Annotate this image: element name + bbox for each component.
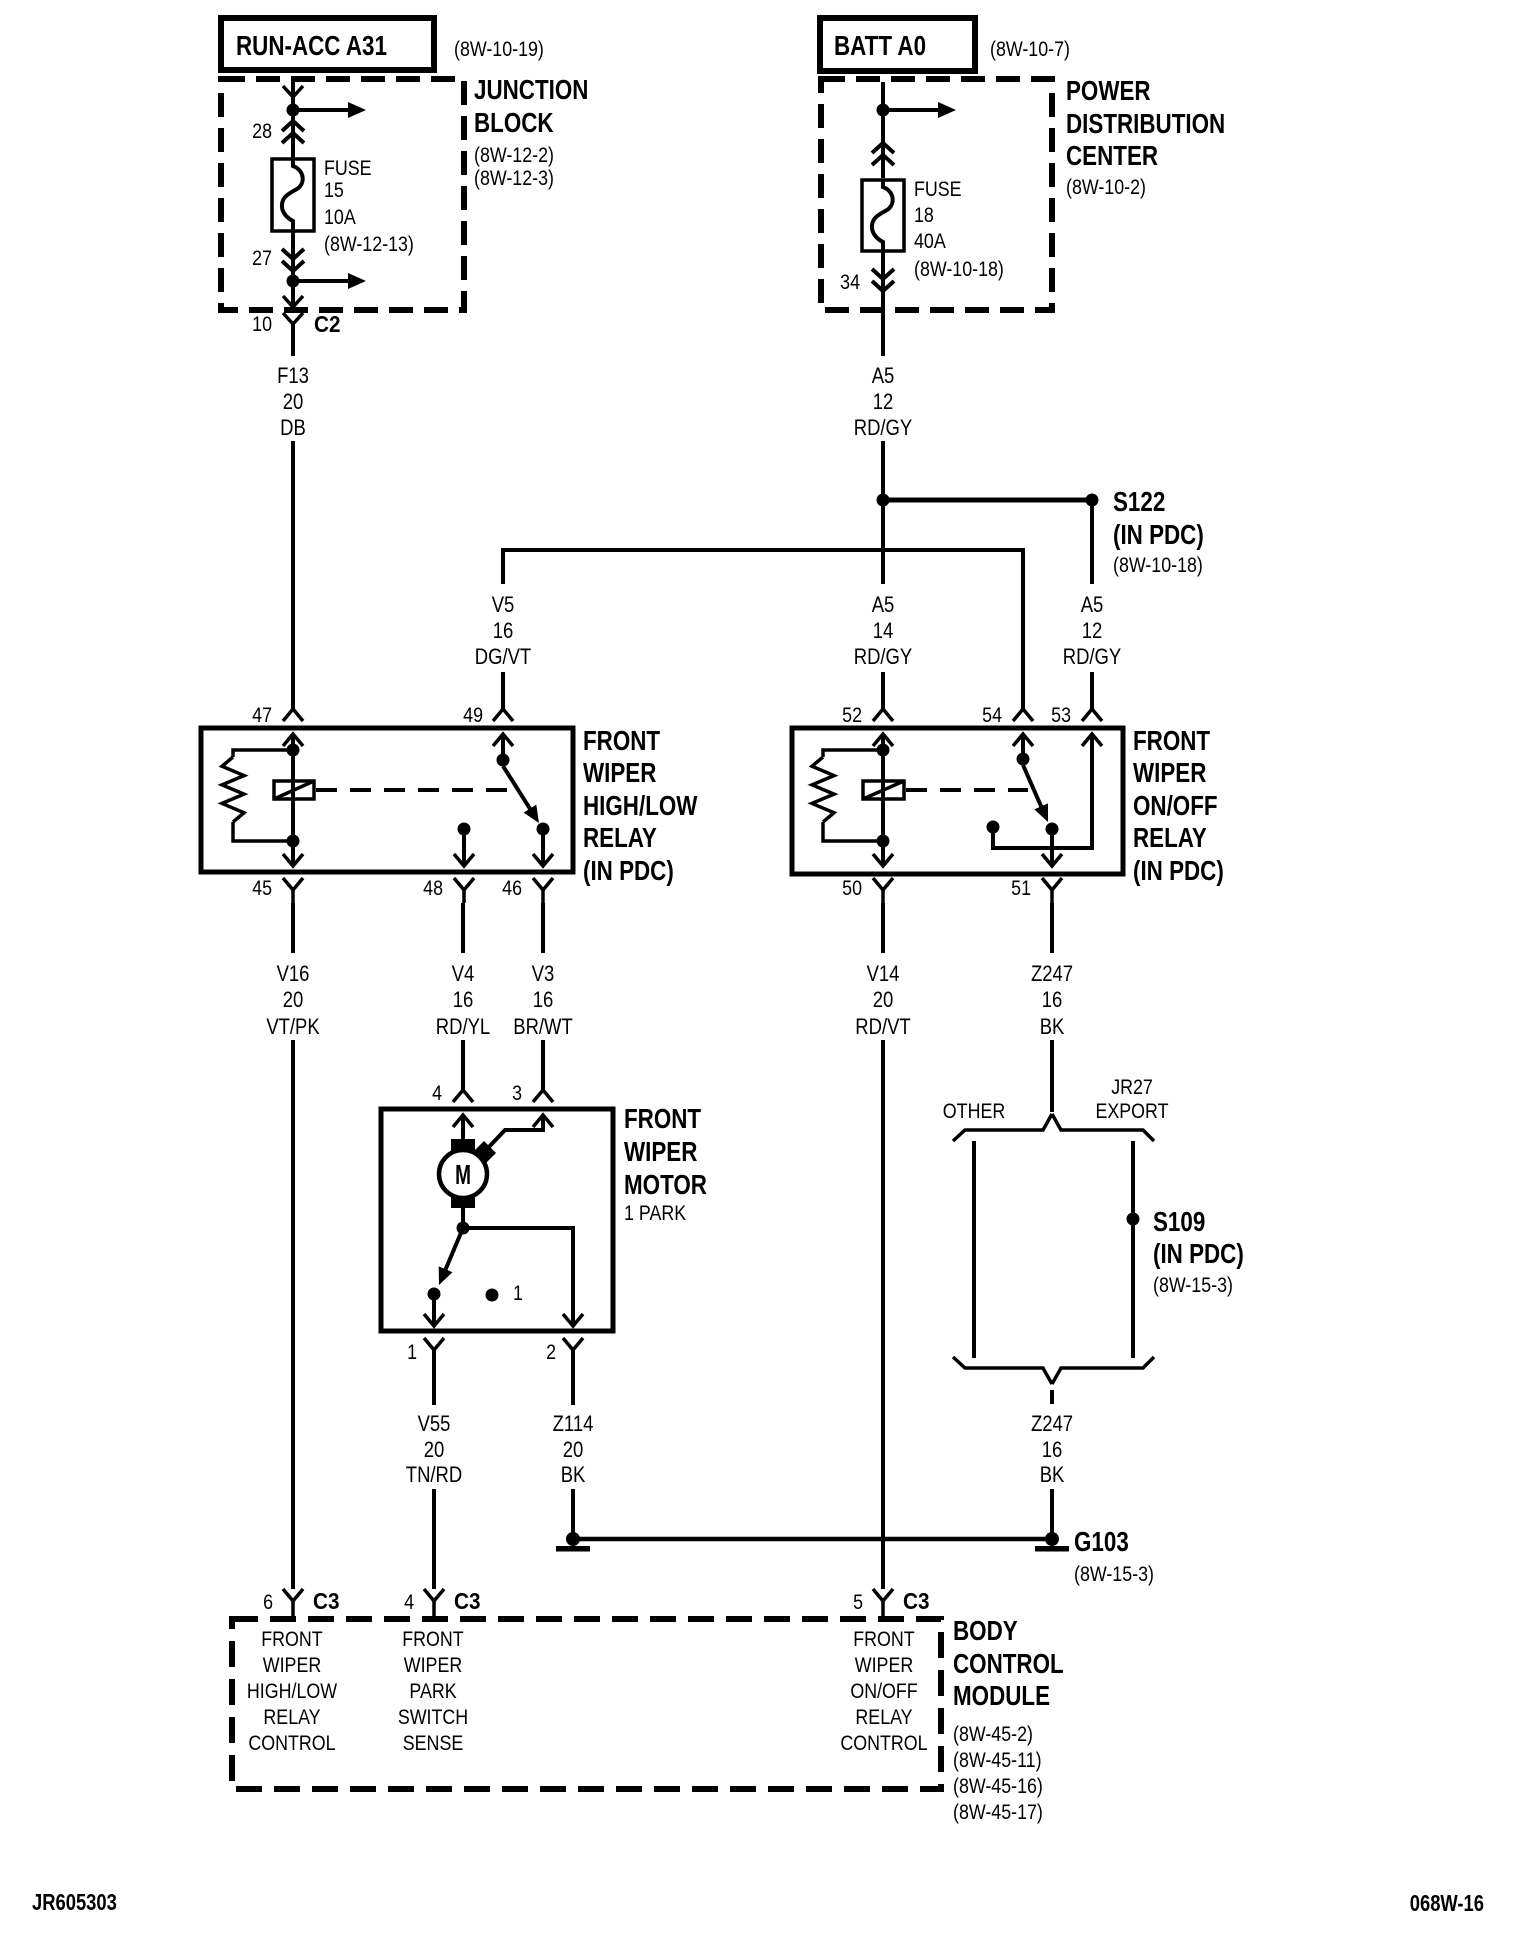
relay coil K1 <box>274 752 314 841</box>
wire V14 upper segment <box>881 903 885 953</box>
wire pin54 to switch pivot <box>1021 734 1025 759</box>
resistor (relay suppression) left <box>222 750 293 841</box>
svg-text:20: 20 <box>563 1439 584 1463</box>
svg-text:BR/WT: BR/WT <box>513 1016 572 1040</box>
sheet code 068W-16 <box>1410 1891 1484 1916</box>
power distribution center name text <box>1066 76 1225 200</box>
svg-text:DB: DB <box>280 417 306 441</box>
svg-text:49: 49 <box>463 704 483 728</box>
wire label V14 20 RD/VT <box>855 963 910 1040</box>
wire V16 upper segment <box>291 903 295 953</box>
BCM pin 6 label <box>263 1591 273 1615</box>
wire park node to pin 2 <box>463 1228 573 1326</box>
pin 47 connector fork <box>283 709 303 721</box>
motor pin 4 arrow inside <box>453 1115 473 1127</box>
svg-text:27: 27 <box>252 247 272 271</box>
pin 45 connector fork <box>283 878 303 903</box>
svg-text:G103: G103 <box>1074 1527 1129 1558</box>
pin 48 arrow inside <box>454 854 474 866</box>
svg-text:4: 4 <box>432 1082 442 1106</box>
pin 47 arrow inside <box>283 734 303 746</box>
branch arrow (other circuits) top left <box>293 102 366 118</box>
wire park contact to pin 1 <box>432 1294 436 1326</box>
wire V16 long segment to BCM pin 6 <box>291 1040 295 1589</box>
fuse 18 body <box>862 180 904 251</box>
svg-text:FRONT: FRONT <box>624 1104 702 1135</box>
svg-text:Z247: Z247 <box>1031 1413 1073 1437</box>
wire option export branch <box>1131 1141 1135 1358</box>
BCM pin 4 label <box>404 1591 414 1615</box>
svg-text:4: 4 <box>404 1591 414 1615</box>
svg-text:Z114: Z114 <box>553 1413 594 1437</box>
park switch arm <box>439 1228 463 1285</box>
svg-text:10: 10 <box>252 313 272 337</box>
wire contact to pin 46 <box>541 829 545 866</box>
front wiper on/off relay box <box>792 728 1123 874</box>
svg-text:V4: V4 <box>452 963 475 987</box>
ground G103 left node <box>556 1532 590 1552</box>
svg-text:(8W-10-2): (8W-10-2) <box>1066 176 1146 200</box>
label OTHER <box>943 1100 1005 1124</box>
node splice in junction block (top) <box>287 104 300 117</box>
coil top node (on/off relay) <box>877 744 890 757</box>
svg-text:RD/GY: RD/GY <box>1063 646 1122 670</box>
wire into fuse 15 <box>291 110 295 159</box>
fuse 15 body <box>272 159 314 231</box>
power feed label box BATT A0 <box>820 18 975 71</box>
svg-text:DG/VT: DG/VT <box>475 646 531 670</box>
svg-text:15: 15 <box>324 179 344 203</box>
park switch common node <box>457 1222 470 1235</box>
reference (8W-10-7) <box>990 38 1070 62</box>
branch wire to V5 and relay pin 54 <box>503 550 1023 709</box>
svg-text:RD/YL: RD/YL <box>436 1016 490 1040</box>
svg-text:(8W-10-7): (8W-10-7) <box>990 38 1070 62</box>
svg-text:FRONT: FRONT <box>261 1628 323 1652</box>
wire coil to pin 45 <box>291 841 295 866</box>
splice S122 bus line <box>889 498 1086 503</box>
svg-text:PARK: PARK <box>409 1680 456 1704</box>
wire A5 lower segment to splice S122 <box>881 441 885 500</box>
svg-text:5: 5 <box>853 1591 863 1615</box>
svg-text:52: 52 <box>842 704 862 728</box>
common contact node (pin 46) <box>537 823 550 836</box>
wire V55 upper segment <box>432 1350 436 1405</box>
svg-text:16: 16 <box>453 989 474 1013</box>
coil-to-switch dashed link <box>316 788 512 792</box>
pin 52 arrow inside <box>873 734 893 746</box>
svg-text:BATT A0: BATT A0 <box>834 31 926 62</box>
pin label 28 <box>252 120 272 144</box>
svg-text:JR605303: JR605303 <box>32 1890 117 1915</box>
svg-text:BODY: BODY <box>953 1616 1018 1647</box>
svg-text:CENTER: CENTER <box>1066 141 1158 172</box>
svg-text:14: 14 <box>873 620 894 644</box>
wire pin47 to coil node <box>291 734 295 752</box>
svg-text:46: 46 <box>502 877 522 901</box>
svg-text:F13: F13 <box>277 365 309 389</box>
pin label 10 <box>252 313 272 337</box>
svg-text:WIPER: WIPER <box>855 1654 913 1678</box>
BCM pin 5 label <box>853 1591 863 1615</box>
svg-text:18: 18 <box>914 204 934 228</box>
entry chevron junction block <box>283 86 303 97</box>
relay coil K2 <box>863 752 904 841</box>
coil bottom node (on/off relay) <box>877 835 890 848</box>
svg-text:RD/VT: RD/VT <box>855 1016 910 1040</box>
motor pin 1 label <box>407 1341 417 1365</box>
pin 53 arrow inside <box>1082 734 1102 746</box>
svg-text:12: 12 <box>873 391 894 415</box>
ground G103 label <box>1074 1527 1154 1587</box>
svg-text:ON/OFF: ON/OFF <box>1133 791 1218 822</box>
motor pin 3 connector fork <box>533 1090 553 1102</box>
svg-text:47: 47 <box>252 704 272 728</box>
BCM input name front wiper high/low relay control <box>247 1628 338 1756</box>
svg-text:BLOCK: BLOCK <box>474 108 554 139</box>
svg-text:A5: A5 <box>1081 594 1104 618</box>
svg-text:BK: BK <box>1040 1016 1065 1040</box>
wire V4 upper segment <box>461 903 465 953</box>
pin 46 connector fork <box>533 878 553 903</box>
PDC upper double chevron <box>872 143 894 165</box>
svg-text:A5: A5 <box>872 594 895 618</box>
common contact node (pin 51) <box>1046 823 1059 836</box>
svg-text:CONTROL: CONTROL <box>953 1649 1064 1680</box>
svg-text:1 PARK: 1 PARK <box>624 1202 686 1226</box>
exit chevron junction block <box>283 296 303 307</box>
svg-text:RELAY: RELAY <box>855 1706 912 1730</box>
wire pin3 to motor field terminal <box>487 1115 543 1149</box>
svg-text:(8W-15-3): (8W-15-3) <box>1074 1563 1154 1587</box>
svg-text:POWER: POWER <box>1066 76 1151 107</box>
wire from RUN-ACC A31 into junction block <box>291 82 295 110</box>
svg-text:HIGH/LOW: HIGH/LOW <box>247 1680 338 1704</box>
svg-text:RD/GY: RD/GY <box>854 417 913 441</box>
svg-text:CONTROL: CONTROL <box>248 1732 335 1756</box>
svg-text:50: 50 <box>842 877 862 901</box>
wire contact to pin 48 <box>462 829 466 866</box>
switch pivot node (on/off relay) <box>1017 753 1030 766</box>
wire A5 12 segment from S122 right <box>1090 506 1094 584</box>
svg-text:16: 16 <box>493 620 514 644</box>
svg-text:(8W-12-3): (8W-12-3) <box>474 167 554 191</box>
wire Z247 segment to build brace <box>1050 1040 1054 1112</box>
svg-text:RELAY: RELAY <box>1133 823 1207 854</box>
pin 34 double chevron <box>872 269 894 291</box>
pin 54 connector fork <box>1013 709 1033 721</box>
wire label Z247 16 BK (lower) <box>1031 1413 1073 1488</box>
svg-text:3: 3 <box>512 1082 522 1106</box>
BCM name text <box>953 1616 1064 1825</box>
svg-text:V3: V3 <box>532 963 555 987</box>
svg-text:SENSE: SENSE <box>403 1732 463 1756</box>
svg-text:34: 34 <box>840 271 860 295</box>
relay name front wiper on/off <box>1133 726 1224 887</box>
wire label Z114 20 BK <box>553 1413 594 1488</box>
wire label Z247 16 BK <box>1031 963 1073 1040</box>
svg-text:WIPER: WIPER <box>583 758 656 789</box>
svg-text:1: 1 <box>513 1282 523 1306</box>
branch arrow (other circuits) in PDC <box>883 102 956 118</box>
svg-text:RELAY: RELAY <box>263 1706 320 1730</box>
svg-text:(8W-45-16): (8W-45-16) <box>953 1775 1043 1799</box>
BCM pin 5 connector fork <box>873 1589 893 1619</box>
wire label F13 20 DB <box>277 365 309 441</box>
svg-text:28: 28 <box>252 120 272 144</box>
switch arm (high/low relay) <box>503 766 539 823</box>
power distribution center enclosure (dashed) <box>821 79 1052 310</box>
motor pin 4 label <box>432 1082 442 1106</box>
svg-text:VT/PK: VT/PK <box>266 1016 320 1040</box>
pin 48 connector fork <box>454 878 474 903</box>
wire label A5 12 RD/GY (right) <box>1063 594 1122 670</box>
svg-text:(8W-45-11): (8W-45-11) <box>953 1749 1042 1773</box>
svg-text:FUSE: FUSE <box>324 157 372 181</box>
svg-text:20: 20 <box>283 989 304 1013</box>
wire F13 upper segment <box>291 324 295 356</box>
BCM pin 4 connector fork <box>424 1589 444 1619</box>
svg-text:CONTROL: CONTROL <box>840 1732 927 1756</box>
BCM connector label C3 (pin4) <box>454 1588 480 1614</box>
svg-text:51: 51 <box>1011 877 1031 901</box>
wire label V3 16 BR/WT <box>513 963 572 1040</box>
wire label V55 20 TN/RD <box>406 1413 462 1488</box>
svg-text:Z247: Z247 <box>1031 963 1073 987</box>
svg-text:JR27: JR27 <box>1111 1076 1153 1100</box>
splice S122 left node <box>877 494 890 507</box>
svg-text:20: 20 <box>873 989 894 1013</box>
svg-text:A5: A5 <box>872 365 895 389</box>
branch arrow (other circuits) bottom left <box>293 273 366 289</box>
wire Z114 lower segment to ground <box>571 1489 575 1533</box>
wire A5 12 lower segment to relay pin 53 <box>1090 672 1094 709</box>
splice S122 right node <box>1086 494 1099 507</box>
wire label V4 16 RD/YL <box>436 963 490 1040</box>
wire label V5 16 DG/VT <box>475 594 531 670</box>
svg-text:10A: 10A <box>324 206 356 230</box>
BCM connector label C3 (pin5) <box>903 1588 929 1614</box>
front wiper high/low relay box <box>201 728 573 872</box>
node splice in junction block (bottom) <box>287 275 300 288</box>
switch arm (on/off relay) <box>1023 765 1048 822</box>
svg-text:(8W-45-17): (8W-45-17) <box>953 1801 1043 1825</box>
resistor (relay suppression) right <box>812 750 883 841</box>
pin label 27 <box>252 247 272 271</box>
wire pin 53 to NC contact <box>993 734 1092 848</box>
pin 50 arrow inside <box>873 854 893 866</box>
wire from BATT A0 into PDC <box>881 82 885 110</box>
svg-text:C3: C3 <box>313 1588 339 1614</box>
svg-text:2: 2 <box>546 1341 556 1365</box>
connector label C2 <box>314 311 340 337</box>
svg-text:BK: BK <box>1040 1464 1065 1488</box>
svg-text:C3: C3 <box>454 1588 480 1614</box>
svg-text:6: 6 <box>263 1591 273 1615</box>
svg-text:V5: V5 <box>492 594 515 618</box>
pin 51 connector fork <box>1042 878 1062 903</box>
svg-text:16: 16 <box>533 989 554 1013</box>
svg-text:TN/RD: TN/RD <box>406 1464 462 1488</box>
svg-text:RUN-ACC A31: RUN-ACC A31 <box>236 31 387 62</box>
pin 45 arrow inside <box>283 854 303 866</box>
svg-text:ON/OFF: ON/OFF <box>850 1680 917 1704</box>
svg-text:FUSE: FUSE <box>914 178 962 202</box>
svg-text:20: 20 <box>424 1439 445 1463</box>
svg-text:53: 53 <box>1051 704 1071 728</box>
pin 48 label <box>423 877 443 901</box>
motor pin 1 arrow inside <box>424 1314 444 1326</box>
svg-text:(8W-10-19): (8W-10-19) <box>454 38 544 62</box>
svg-text:M: M <box>455 1159 471 1191</box>
label JR27 EXPORT <box>1095 1076 1168 1124</box>
ground bus line <box>573 1537 1052 1542</box>
svg-text:S109: S109 <box>1153 1207 1205 1238</box>
svg-text:OTHER: OTHER <box>943 1100 1005 1124</box>
normally closed contact node (pin53) <box>987 821 1000 834</box>
coil bottom node <box>287 835 300 848</box>
svg-text:(IN PDC): (IN PDC) <box>1153 1239 1244 1270</box>
wire V3 lower segment to motor pin 3 <box>541 1040 545 1090</box>
svg-text:(8W-10-18): (8W-10-18) <box>1113 554 1203 578</box>
pin 53 connector fork <box>1082 709 1102 721</box>
svg-text:MODULE: MODULE <box>953 1681 1050 1712</box>
ground G103 right node <box>1035 1532 1069 1552</box>
wire to junction block exit <box>291 281 295 308</box>
svg-text:40A: 40A <box>914 230 946 254</box>
svg-text:WIPER: WIPER <box>1133 758 1206 789</box>
wire Z247 upper segment <box>1050 903 1054 953</box>
svg-text:JUNCTION: JUNCTION <box>474 75 588 106</box>
splice S122 label <box>1113 487 1204 578</box>
option brace top <box>953 1114 1154 1141</box>
motor M1 body <box>439 1150 487 1198</box>
wire V55 lower segment to BCM pin 4 <box>432 1489 436 1589</box>
motor pin 2 arrow inside <box>563 1314 583 1326</box>
power feed label box RUN-ACC A31 <box>221 18 434 70</box>
svg-text:S122: S122 <box>1113 487 1165 518</box>
junction block enclosure (dashed) <box>221 79 464 310</box>
coil top node <box>287 744 300 757</box>
svg-text:FRONT: FRONT <box>853 1628 915 1652</box>
motor M1 bottom brush terminal <box>451 1196 475 1208</box>
svg-text:16: 16 <box>1042 989 1063 1013</box>
svg-text:SWITCH: SWITCH <box>398 1706 468 1730</box>
svg-text:V14: V14 <box>867 963 900 987</box>
svg-text:C2: C2 <box>314 311 340 337</box>
pin 50 connector fork <box>873 878 893 903</box>
junction block name text <box>474 75 588 191</box>
wire option other branch <box>972 1141 976 1358</box>
wire motor to park switch node <box>461 1208 465 1228</box>
switch pivot node (high/low relay) <box>497 754 510 767</box>
pin 53 label <box>1051 704 1071 728</box>
wire A5 upper segment <box>881 310 885 356</box>
sheet code JR605303 <box>32 1890 117 1915</box>
splice S109 label <box>1153 1207 1244 1298</box>
pin 52 label <box>842 704 862 728</box>
relay name front wiper high/low <box>583 726 697 887</box>
reference (8W-10-19) <box>454 38 544 62</box>
wire label A5 14 RD/GY <box>854 594 913 670</box>
svg-text:45: 45 <box>252 877 272 901</box>
wire coil to pin 50 <box>881 841 885 866</box>
svg-text:(8W-45-2): (8W-45-2) <box>953 1723 1033 1747</box>
pin 46 arrow inside <box>533 854 553 866</box>
pin 52 connector fork <box>873 709 893 721</box>
wire pin4 to motor brush <box>461 1115 465 1141</box>
normally open contact node (pin 48) <box>458 823 471 836</box>
wire from fuse 15 <box>291 231 295 281</box>
BCM connector label C3 (pin6) <box>313 1588 339 1614</box>
BCM pin 6 connector fork <box>283 1589 303 1619</box>
svg-text:FRONT: FRONT <box>583 726 661 757</box>
pin 45 label <box>252 877 272 901</box>
wire pin49 to switch pivot <box>501 734 505 760</box>
motor M1 field diamond terminal <box>472 1141 496 1165</box>
motor pin 3 arrow inside <box>533 1115 553 1127</box>
svg-text:12: 12 <box>1082 620 1103 644</box>
wire A5 14 lower segment to relay pin 52 <box>881 672 885 709</box>
svg-text:48: 48 <box>423 877 443 901</box>
svg-text:(8W-10-18): (8W-10-18) <box>914 258 1004 282</box>
pin 49 connector fork <box>493 709 513 721</box>
wire label A5 12 RD/GY <box>854 365 913 441</box>
svg-text:54: 54 <box>982 704 1002 728</box>
svg-text:068W-16: 068W-16 <box>1410 1891 1484 1916</box>
fuse 18 value label <box>914 178 1004 282</box>
svg-text:(IN PDC): (IN PDC) <box>583 856 674 887</box>
pin 27 double chevron <box>282 249 304 271</box>
wire Z247 below brace <box>1050 1390 1054 1404</box>
motor pin 2 connector fork <box>563 1338 583 1363</box>
wire into fuse 18 <box>881 110 885 178</box>
svg-text:RELAY: RELAY <box>583 823 657 854</box>
node splice in PDC <box>877 104 890 117</box>
svg-text:WIPER: WIPER <box>624 1137 697 1168</box>
motor pin 1 connector fork <box>424 1338 444 1363</box>
wire F13 lower segment to relay pin 47 <box>291 441 295 709</box>
BCM output name front wiper on/off relay control <box>840 1628 927 1756</box>
wire pin52 to coil node <box>881 734 885 752</box>
motor name text <box>624 1104 707 1226</box>
pin 51 arrow inside <box>1042 854 1062 866</box>
motor pin 4 connector fork <box>453 1090 473 1102</box>
svg-text:DISTRIBUTION: DISTRIBUTION <box>1066 109 1225 140</box>
svg-text:V16: V16 <box>277 963 310 987</box>
pin 51 label <box>1011 877 1031 901</box>
svg-text:(8W-15-3): (8W-15-3) <box>1153 1274 1233 1298</box>
wire V5 lower segment to relay pin 49 <box>501 672 505 709</box>
svg-text:(IN PDC): (IN PDC) <box>1133 856 1224 887</box>
pin 50 label <box>842 877 862 901</box>
park contact 1 node <box>486 1289 499 1302</box>
connector C2 fork <box>283 313 303 356</box>
pin 54 arrow inside <box>1013 734 1033 746</box>
svg-text:HIGH/LOW: HIGH/LOW <box>583 791 697 822</box>
wire V14 long segment to BCM pin 5 <box>881 1040 885 1589</box>
wire A5 14 RD/GY segment from S122 <box>881 500 885 584</box>
svg-text:EXPORT: EXPORT <box>1095 1100 1168 1124</box>
wire label V16 20 VT/PK <box>266 963 320 1040</box>
wire Z114 upper segment <box>571 1350 575 1405</box>
svg-text:FRONT: FRONT <box>402 1628 464 1652</box>
svg-text:(IN PDC): (IN PDC) <box>1113 520 1204 551</box>
svg-text:BK: BK <box>561 1464 586 1488</box>
park contact 1 label <box>513 1282 523 1306</box>
fuse 15 value label <box>324 157 414 257</box>
option brace bottom <box>953 1357 1154 1384</box>
